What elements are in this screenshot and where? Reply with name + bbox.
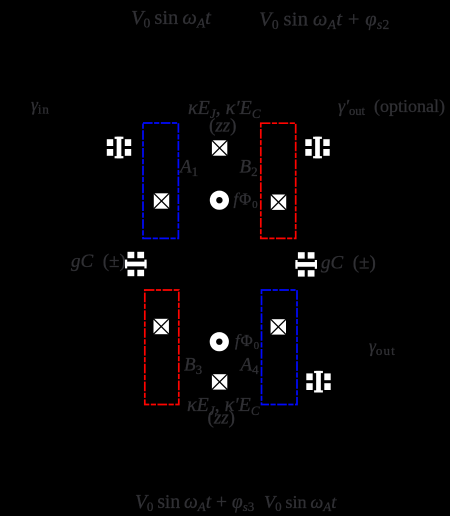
- qubit box A1 (blue dashed): [143, 123, 178, 238]
- svg-text:V0 sin ωAt + φs3: V0 sin ωAt + φs3: [135, 492, 254, 514]
- svg-text:(zz): (zz): [209, 116, 236, 137]
- output coupling capacitor (bottom right): [306, 371, 330, 393]
- josephson junction inside A4: [271, 319, 286, 334]
- josephson junction inside B2: [271, 195, 286, 210]
- svg-text:gC (±): gC (±): [321, 253, 376, 274]
- output coupling capacitor (top right): [305, 137, 329, 159]
- josephson junction inside A1: [154, 193, 169, 208]
- svg-text:gC (±): gC (±): [71, 251, 126, 272]
- svg-text:(zz): (zz): [208, 408, 235, 429]
- svg-text:V0 sin ωAt + φs2: V0 sin ωAt + φs2: [259, 9, 390, 33]
- coupling capacitor gC (left, horizontal): [125, 252, 147, 276]
- flux bias symbol (bottom): [210, 332, 229, 351]
- flux bias symbol (top): [210, 191, 229, 210]
- qubit box A4 (blue dashed, bottom right): [262, 290, 298, 405]
- qubit box B3 (red dashed, bottom left): [145, 290, 179, 405]
- qubit box B2 (red dashed): [261, 123, 296, 238]
- josephson junction inside B3: [154, 319, 169, 334]
- josephson junction (coupler, bottom middle): [212, 374, 227, 389]
- coupling capacitor gC (right, horizontal): [295, 252, 317, 276]
- josephson junction (coupler, top middle): [212, 140, 227, 155]
- input coupling capacitor (top left): [107, 137, 131, 159]
